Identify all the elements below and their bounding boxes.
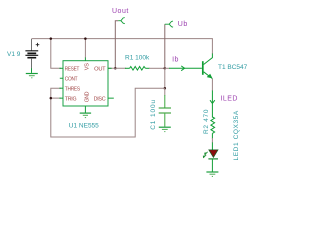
- wire emitter down: [211, 79, 213, 91]
- resistor R1: [125, 67, 150, 71]
- capacitor C1: [159, 88, 171, 127]
- node junction rail-RESET: [50, 37, 53, 40]
- svg-text:RESET: RESET: [65, 67, 80, 73]
- node junction OUT-Uout: [114, 67, 117, 70]
- wire Ub tap: [164, 24, 166, 68]
- wire RESET to rail: [51, 39, 61, 69]
- wire R2 to LED: [211, 133, 213, 138]
- pin stub GND: [84, 106, 86, 113]
- ground (U1 GND pin): [80, 113, 91, 118]
- svg-text:R1 100k: R1 100k: [125, 55, 150, 62]
- wire VS to rail: [84, 39, 86, 58]
- pin stub VS: [84, 58, 86, 61]
- svg-text:OUT: OUT: [94, 67, 106, 73]
- wire supply rail: [32, 39, 213, 54]
- wire THRES-TRIG connector: [51, 88, 61, 98]
- svg-text:TRIG: TRIG: [65, 96, 77, 102]
- svg-text:C1 100u: C1 100u: [150, 99, 157, 130]
- svg-text:Uout: Uout: [112, 8, 129, 15]
- terminal jack Ub: [165, 21, 173, 27]
- battery V1: [25, 39, 39, 69]
- pin stub TRIG: [59, 97, 63, 99]
- svg-text:T1 BC547: T1 BC547: [218, 64, 248, 71]
- node junction rail-VS: [84, 37, 87, 40]
- pin stub CONT: [60, 77, 63, 79]
- svg-text:CONT: CONT: [65, 77, 78, 83]
- node C1 node: [164, 87, 167, 90]
- pin stub RESET: [59, 67, 63, 69]
- ground (C1): [159, 127, 171, 131]
- svg-text:LED1 CQX35A: LED1 CQX35A: [233, 110, 240, 160]
- wire Uout tap: [115, 21, 118, 69]
- svg-text:VS: VS: [84, 63, 90, 70]
- svg-text:Ib: Ib: [172, 57, 179, 64]
- wire R1 to node: [149, 67, 165, 69]
- svg-text:THRES: THRES: [65, 87, 81, 93]
- ground (LED): [206, 172, 218, 176]
- LED LED1 CQX35A: [203, 150, 218, 159]
- op-amp U1 NE555 box: [63, 61, 108, 106]
- svg-text:Ub: Ub: [178, 21, 188, 28]
- pin stub THRES: [59, 87, 63, 89]
- wire base node down to C1 node: [164, 68, 166, 88]
- node base node: [164, 67, 167, 70]
- svg-text:DISC: DISC: [94, 96, 106, 102]
- wire LED to ground: [211, 159, 213, 172]
- svg-text:V1 9: V1 9: [7, 51, 21, 58]
- transistor T1 BC547: [203, 54, 213, 79]
- svg-text:ILED: ILED: [220, 95, 238, 102]
- ground (battery): [26, 68, 38, 78]
- svg-text:U1 NE555: U1 NE555: [69, 122, 99, 129]
- wire OUT pin to R1: [108, 67, 126, 69]
- node TRIG junction: [50, 97, 53, 100]
- terminal jack Uout: [118, 18, 125, 24]
- svg-text:R2 470: R2 470: [203, 109, 210, 134]
- current arrow Ib: [181, 66, 184, 71]
- svg-text:GND: GND: [84, 92, 90, 103]
- pin stub DISC: [108, 97, 114, 99]
- current arrow ILED: [210, 100, 215, 103]
- resistor R2: [211, 117, 215, 133]
- wire Ib base wire: [165, 67, 170, 69]
- pin stub OUT: [108, 67, 112, 69]
- wire C1 node to THRES/TRIG loop: [51, 88, 165, 137]
